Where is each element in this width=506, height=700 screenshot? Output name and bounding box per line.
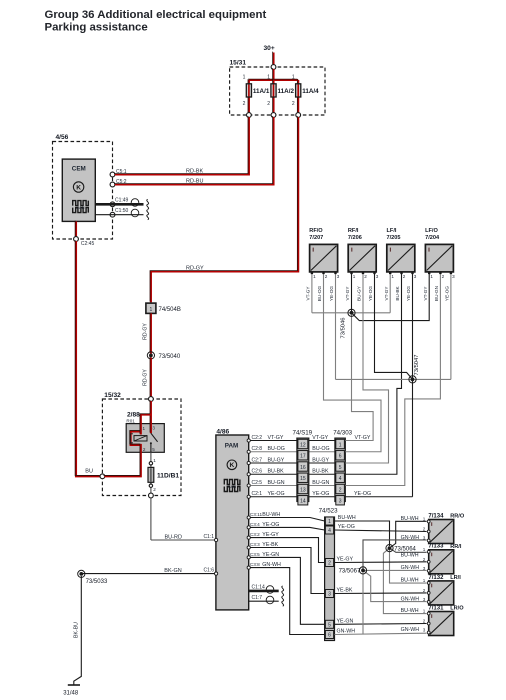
- wire VT-GY splice to RF/I pin 1: [351, 273, 353, 313]
- CEM K symbol: [73, 182, 83, 192]
- svg-text:7/132: 7/132: [428, 575, 444, 581]
- svg-text:3: 3: [452, 274, 455, 279]
- svg-text:3: 3: [423, 597, 426, 602]
- svg-text:LR/O: LR/O: [450, 606, 464, 612]
- svg-text:RF/I: RF/I: [348, 228, 359, 234]
- svg-text:Parking assistance: Parking assistance: [45, 22, 148, 34]
- svg-text:GN-WH: GN-WH: [337, 628, 356, 634]
- svg-text:1: 1: [339, 442, 342, 448]
- svg-text:Group 36 Additional electrical: Group 36 Additional electrical equipment: [45, 9, 267, 21]
- wire YE-OG splice to RF/I pin 3: [375, 273, 413, 379]
- wire through fuse 11A/2: [272, 79, 275, 113]
- svg-text:1: 1: [353, 274, 356, 279]
- wire YE-OG 74/523:4 to RR/O pin 2: [335, 530, 427, 532]
- svg-text:15: 15: [300, 476, 306, 482]
- wire 30+ feed: [272, 52, 275, 65]
- svg-text:BU: BU: [85, 468, 93, 474]
- svg-text:BU-WH: BU-WH: [401, 516, 419, 522]
- svg-text:1: 1: [423, 547, 426, 552]
- svg-text:C3:4: C3:4: [250, 522, 260, 527]
- svg-text:3: 3: [152, 425, 155, 430]
- pin C5:2: [110, 182, 115, 187]
- wire VT-GY 74/S19 to 74/303: [309, 440, 335, 442]
- wire YE-OG rail: [336, 378, 451, 380]
- wire relay pin 5 down: [150, 443, 152, 452]
- ultrasonic sensor 7/207 RF/O: [310, 244, 338, 272]
- svg-text:7/131: 7/131: [428, 605, 444, 611]
- svg-text:C3:2: C3:2: [250, 532, 260, 537]
- svg-text:CAN: CAN: [228, 484, 237, 489]
- wire BU-RD to PAM C1:1: [151, 539, 216, 541]
- svg-text:BU-BK: BU-BK: [395, 285, 400, 300]
- svg-text:1: 1: [143, 426, 146, 431]
- svg-text:BU-WH: BU-WH: [401, 608, 419, 614]
- svg-text:LF/I: LF/I: [387, 228, 397, 234]
- svg-text:16: 16: [300, 465, 306, 471]
- svg-text:LR/I: LR/I: [450, 575, 461, 581]
- 11D/B1 pin 1: [149, 462, 152, 465]
- CEM CAN symbol: [73, 201, 89, 213]
- svg-text:CAN: CAN: [76, 205, 85, 210]
- svg-text:C3:8: C3:8: [250, 562, 260, 567]
- wire YE-OG C3:4 to 74/523:4: [250, 527, 324, 530]
- ultrasonic sensor 7/205 LF/I: [387, 244, 415, 272]
- 74/S19 pin 15 box: [298, 473, 308, 482]
- 74/S19 pin 14 box: [298, 496, 308, 505]
- wire YE-GN 74/523:5 to LR/O pin 2: [335, 623, 427, 626]
- 74/S19 pin 17 box: [298, 451, 308, 460]
- relay box 15/32 outline: [102, 399, 181, 496]
- svg-text:C1:1: C1:1: [203, 534, 214, 540]
- wire break C1:50: [147, 210, 149, 220]
- wire CAN C1:7: [249, 600, 279, 602]
- wire through fuse 11A/1: [247, 79, 250, 113]
- svg-text:7/206: 7/206: [348, 235, 362, 241]
- wire YE-OG RF/O pin 3 drop: [335, 273, 337, 379]
- wire break C1:14: [282, 586, 284, 596]
- wire break C1:7: [282, 596, 284, 606]
- ultrasonic sensor 7/133 RR/I: [429, 550, 454, 574]
- wire BK-GN PAM C1:6 to 73/5033: [81, 573, 216, 575]
- wire BU-BK 74/S19 to 74/303: [309, 473, 335, 475]
- wire fuse feed rail: [248, 78, 298, 81]
- svg-text:YE-OG: YE-OG: [406, 286, 411, 301]
- 74/303 pin 5 box: [336, 462, 345, 471]
- relay switch contact: [151, 433, 158, 442]
- svg-text:73/5047: 73/5047: [414, 355, 420, 376]
- connector below fuse 11A/1: [247, 113, 252, 118]
- wire BU-GN PAM to 74/S19: [250, 485, 297, 487]
- wire BU-OG 74/S19 to 74/303: [309, 451, 335, 453]
- ultrasonic sensor 7/206 RF/I: [348, 244, 376, 272]
- svg-text:12: 12: [300, 442, 306, 448]
- svg-text:C2:45: C2:45: [81, 241, 95, 247]
- svg-text:30+: 30+: [264, 45, 275, 52]
- svg-text:2: 2: [423, 619, 426, 624]
- splice 73/5064: [386, 545, 393, 552]
- wire GN-WH 74/523:6 to LR/O pin 3: [335, 633, 427, 634]
- svg-text:11A/4: 11A/4: [302, 88, 319, 95]
- svg-text:5: 5: [339, 465, 342, 471]
- ultrasonic sensor 7/131 LR/O: [429, 612, 454, 636]
- svg-text:LF/O: LF/O: [425, 228, 438, 234]
- svg-text:RD-GY: RD-GY: [143, 369, 149, 386]
- 74/S19 pin 13 box: [298, 484, 308, 493]
- 74/523 pin 3 box: [325, 590, 333, 598]
- svg-text:74/523: 74/523: [319, 508, 338, 515]
- pin C2:45: [74, 237, 79, 242]
- pin C1:49: [110, 202, 115, 207]
- wire GN-WH C3:8 to 74/523:6: [250, 568, 324, 635]
- svg-text:7/133: 7/133: [428, 544, 444, 550]
- svg-text:3: 3: [423, 566, 426, 571]
- wire relay feed branch to pin 1: [140, 414, 151, 435]
- 74/523 pin 6 box: [325, 631, 333, 639]
- svg-text:BU-WH: BU-WH: [401, 577, 419, 583]
- wire RD-GY 74/504B to 73/5040: [149, 313, 152, 354]
- connector 15/32 bottom: [149, 493, 154, 498]
- wire YE-OG 74/S19 to 74/303: [309, 496, 335, 498]
- svg-text:14: 14: [300, 499, 306, 505]
- svg-text:YE-OG: YE-OG: [368, 286, 373, 301]
- 74/523 pin 1 box: [325, 517, 333, 525]
- CEM dashed outline 4/56: [53, 142, 113, 240]
- fuse 11A/4: [296, 84, 301, 97]
- wire VT-GY PAM to 74/S19: [250, 440, 297, 442]
- svg-text:74/S19: 74/S19: [293, 429, 313, 436]
- svg-text:BK-GN: BK-GN: [164, 568, 181, 574]
- wire GN-WH riser to splice: [362, 572, 364, 634]
- svg-text:2: 2: [364, 274, 367, 279]
- wire BK-BU to ground: [74, 576, 82, 685]
- svg-text:3: 3: [414, 274, 417, 279]
- relay coil bracket: [130, 434, 133, 443]
- svg-text:BU-WH: BU-WH: [338, 515, 356, 521]
- svg-text:7/205: 7/205: [387, 235, 401, 241]
- svg-text:1: 1: [430, 274, 433, 279]
- wire YE-GY 74/523:2 to RR/I pin 2: [335, 561, 427, 564]
- wire GN-WH splice to RR/I pin 3: [363, 569, 427, 571]
- svg-text:2: 2: [325, 274, 328, 279]
- svg-text:4: 4: [328, 528, 331, 534]
- svg-text:VT-GY: VT-GY: [345, 286, 350, 301]
- wire YE-BK 74/523:3 to LR/I pin 2: [335, 592, 427, 595]
- wire BU-WH splice to LR/I pin 1: [390, 550, 427, 583]
- wire CAN C1:14: [249, 590, 279, 593]
- wire BU-WH C3:11 to 74/523:1: [250, 518, 324, 522]
- connector 15/32 left: [100, 474, 105, 479]
- svg-text:C1:49: C1:49: [115, 198, 129, 204]
- svg-text:74/504B: 74/504B: [159, 307, 181, 313]
- wire VT-GY LF/I pin 1 drop: [389, 273, 391, 313]
- svg-text:11A/2: 11A/2: [278, 88, 295, 95]
- svg-text:R01: R01: [126, 419, 135, 424]
- svg-text:BU-GN: BU-GN: [434, 286, 439, 301]
- 74/523 pin 4 box: [325, 526, 333, 534]
- svg-text:C1:50: C1:50: [115, 208, 129, 214]
- wire BU-GY 74/S19 to 74/303: [309, 462, 335, 464]
- svg-text:YE-OG: YE-OG: [354, 491, 371, 497]
- relay 2/88 body: [126, 424, 164, 453]
- svg-text:VT-GY: VT-GY: [423, 286, 428, 301]
- svg-text:C3:11: C3:11: [250, 512, 263, 517]
- twisted pair loop C1:50: [131, 209, 139, 217]
- svg-text:2: 2: [423, 557, 426, 562]
- relay coil: [134, 436, 147, 441]
- svg-text:5: 5: [328, 622, 331, 628]
- ultrasonic sensor 7/134 RR/O: [429, 520, 454, 544]
- svg-text:YE-GY: YE-GY: [337, 557, 354, 563]
- wire VT-GY rail front sensors: [312, 312, 390, 314]
- svg-text:C3:3: C3:3: [250, 542, 260, 547]
- wire CAN-L C1:50: [95, 214, 143, 216]
- svg-text:3: 3: [328, 592, 331, 598]
- svg-text:31/48: 31/48: [63, 691, 79, 697]
- svg-text:RD-BU: RD-BU: [186, 179, 203, 185]
- svg-text:73/5033: 73/5033: [86, 579, 108, 585]
- 74/303 pin 1 box: [336, 439, 345, 448]
- svg-text:2: 2: [442, 274, 445, 279]
- splice 73/5047: [409, 376, 416, 383]
- wire YE-GN C3:5 to 74/523:5: [250, 557, 324, 624]
- svg-text:PAM: PAM: [225, 443, 239, 450]
- svg-text:74/303: 74/303: [333, 429, 352, 436]
- svg-text:GN-WH: GN-WH: [401, 596, 420, 602]
- 11D/B1 pin 2: [149, 484, 152, 487]
- fuse 11A/1: [246, 84, 251, 97]
- svg-text:BU-WH: BU-WH: [401, 552, 419, 558]
- svg-text:BU-OG: BU-OG: [317, 285, 322, 301]
- 74/S19 pin 16 box: [298, 462, 308, 471]
- svg-text:3: 3: [423, 628, 426, 633]
- wire BU from C2:45 to relay box: [75, 240, 100, 476]
- ground 31/48 symbol: [68, 684, 80, 686]
- svg-text:RD-BK: RD-BK: [186, 169, 203, 175]
- svg-text:2: 2: [292, 101, 295, 107]
- PAM module box: [216, 435, 249, 610]
- svg-text:7/207: 7/207: [309, 235, 323, 241]
- 74/303 pin 4 box: [336, 473, 345, 482]
- wire BU to relay coil pin 2: [104, 431, 141, 477]
- wire BU-WH 74/523:1 to splice: [335, 521, 390, 546]
- svg-text:3: 3: [339, 499, 342, 505]
- svg-text:GN-WH: GN-WH: [401, 565, 420, 571]
- wire YE-OG vertical through splice: [412, 273, 414, 496]
- wire RD-GY 73/5040 to 15/32: [149, 357, 152, 397]
- wire RD-BU fuse 11A/2 to CEM C5:2: [114, 116, 273, 184]
- svg-text:1: 1: [328, 519, 331, 525]
- svg-text:VT-GY: VT-GY: [384, 286, 389, 301]
- connector at fuse box top: [271, 65, 276, 70]
- svg-text:BK-BU: BK-BU: [74, 622, 80, 638]
- 74/523 pin 5 box: [325, 620, 333, 628]
- svg-text:15/31: 15/31: [230, 60, 247, 67]
- svg-text:5: 5: [152, 447, 155, 452]
- wire YE-BK C3:3 to 74/523:3: [250, 548, 324, 594]
- wire BU-WH splice to RR/O pin 1: [390, 521, 427, 548]
- connector 74/504B: [146, 303, 156, 313]
- svg-text:7/134: 7/134: [428, 513, 444, 519]
- svg-text:RF/O: RF/O: [309, 228, 323, 234]
- wire YE-OG LF/O pin 3 drop: [450, 273, 452, 379]
- connector 15/32 top: [149, 397, 154, 402]
- svg-text:C1:6: C1:6: [203, 568, 214, 574]
- wire GN-WH splice to LR/I pin 3: [363, 570, 427, 601]
- svg-text:BU-GY: BU-GY: [357, 285, 362, 301]
- svg-text:2: 2: [423, 588, 426, 593]
- PAM CAN symbol: [224, 480, 240, 492]
- svg-text:1: 1: [423, 517, 426, 522]
- svg-text:RR/O: RR/O: [450, 514, 465, 520]
- svg-text:2/88: 2/88: [127, 412, 140, 419]
- twisted pair loop C1:7: [266, 596, 274, 604]
- splice 73/5040: [147, 352, 154, 359]
- wire BU-GY 74/303:5 to RF/I pin 2: [345, 273, 388, 463]
- 74/523 pin 2 box: [325, 559, 333, 567]
- ultrasonic sensor 7/132 LR/I: [429, 581, 454, 605]
- twisted pair loop C1:14: [266, 586, 274, 594]
- wire VT-GY RF/O pin 1 drop: [311, 273, 313, 313]
- wire 30+ into box: [272, 68, 275, 80]
- svg-text:C1:7: C1:7: [252, 595, 263, 601]
- connector below fuse 11A/4: [296, 113, 301, 118]
- connector 74/303 strip: [335, 438, 345, 501]
- splice 73/5067: [359, 567, 366, 574]
- svg-text:2: 2: [153, 487, 156, 492]
- svg-text:2: 2: [339, 487, 342, 493]
- svg-text:1: 1: [292, 75, 295, 81]
- ultrasonic sensor 7/204 LF/O: [425, 244, 453, 272]
- wire BU-OG 74/303:6 to RF/O pin 2: [324, 273, 382, 451]
- svg-text:RD-GY: RD-GY: [186, 265, 204, 271]
- fuse box 15/31 outline: [230, 67, 325, 115]
- pin C1:50: [110, 212, 115, 217]
- svg-text:YE-BK: YE-BK: [337, 588, 353, 594]
- connector 74/S19 strip: [297, 438, 309, 501]
- 74/303 pin 6 box: [336, 451, 345, 460]
- wire BU-GN 74/303:2 to LF/O pin 2: [345, 273, 440, 485]
- twisted pair loop C1:49: [131, 199, 139, 207]
- svg-text:73/5046: 73/5046: [341, 318, 347, 339]
- svg-text:3: 3: [337, 274, 340, 279]
- splice 73/5033: [78, 570, 85, 577]
- svg-text:3: 3: [423, 536, 426, 541]
- wire BU-WH splice to LR/O pin 1: [383, 548, 426, 614]
- connector 74/523 strip: [325, 517, 335, 641]
- PAM K symbol: [227, 460, 237, 470]
- svg-text:6: 6: [339, 454, 342, 460]
- wire BU-BK PAM to 74/S19: [250, 473, 297, 475]
- wire BU-GY PAM to 74/S19: [250, 462, 297, 464]
- svg-text:15/32: 15/32: [104, 392, 121, 399]
- wire break C1:49: [147, 199, 149, 209]
- CEM module box: [62, 159, 95, 221]
- svg-text:4/56: 4/56: [56, 134, 69, 141]
- svg-text:4: 4: [339, 476, 342, 482]
- svg-text:2: 2: [328, 561, 331, 567]
- wire YE-OG 74/303:3 out: [345, 496, 412, 498]
- svg-text:6: 6: [328, 633, 331, 639]
- wire VT-GY splice to LF/O pin 1: [352, 273, 430, 320]
- svg-text:YE-OG: YE-OG: [329, 286, 334, 301]
- svg-text:13: 13: [300, 487, 306, 493]
- wire YE-GY C3:2 to 74/523:2: [250, 538, 324, 563]
- svg-text:YE-OG: YE-OG: [338, 524, 355, 530]
- svg-text:3: 3: [376, 274, 379, 279]
- svg-text:1: 1: [391, 274, 394, 279]
- svg-text:BU-RD: BU-RD: [165, 534, 182, 540]
- svg-text:C1:14: C1:14: [252, 584, 266, 590]
- svg-text:GN-WH: GN-WH: [401, 627, 420, 633]
- svg-text:YE-OG: YE-OG: [445, 286, 450, 301]
- connector below fuse 11A/2: [271, 113, 276, 118]
- svg-text:2: 2: [267, 101, 270, 107]
- wire relay pin5 through 11D/B1: [150, 452, 152, 495]
- svg-text:2: 2: [243, 101, 246, 107]
- svg-text:11A/1: 11A/1: [253, 88, 270, 95]
- wire BU-BK 74/303:4 to LF/I pin 2: [345, 273, 401, 474]
- svg-text:1: 1: [423, 578, 426, 583]
- svg-text:1: 1: [243, 75, 246, 81]
- wire BU-RD vertical: [150, 498, 152, 540]
- wire BU-GN 74/S19 to 74/303: [309, 485, 335, 487]
- svg-text:CEM: CEM: [72, 166, 86, 173]
- wire GN-WH splice to RR/O pin 3: [363, 540, 427, 571]
- svg-text:K: K: [230, 462, 235, 469]
- svg-text:1: 1: [150, 307, 153, 313]
- wire RD-GY fuse 11A/4 down to 74/504B: [150, 116, 298, 302]
- wire CAN-H C1:49: [95, 203, 143, 206]
- svg-text:GN-WH: GN-WH: [401, 535, 420, 541]
- 74/303 pin 3 box: [336, 496, 345, 505]
- svg-text:RD-GY: RD-GY: [143, 323, 149, 340]
- svg-text:2: 2: [423, 527, 426, 532]
- svg-text:1: 1: [153, 458, 156, 463]
- wire VT-GY 74/303:1 up to splice: [345, 315, 373, 441]
- svg-text:1: 1: [423, 609, 426, 614]
- svg-text:C3:5: C3:5: [250, 552, 260, 557]
- svg-text:YE-GN: YE-GN: [337, 619, 354, 625]
- fuse 11A/2: [271, 84, 276, 97]
- splice 73/5046: [348, 309, 355, 316]
- wire CEM to C2:45: [74, 221, 77, 237]
- wire RD-BK fuse 11A/1 to CEM C5:1: [114, 116, 249, 174]
- svg-text:1: 1: [313, 274, 316, 279]
- wire BU-OG PAM to 74/S19: [250, 451, 297, 453]
- svg-text:73/5067: 73/5067: [339, 569, 361, 575]
- svg-text:1: 1: [267, 75, 270, 81]
- 74/S19 pin 12 box: [298, 439, 308, 448]
- svg-text:73/5040: 73/5040: [159, 354, 181, 360]
- wire BU-WH splice to RR/I pin 1: [390, 548, 427, 552]
- svg-text:7/204: 7/204: [425, 235, 440, 241]
- fuse 11D/B1: [148, 467, 154, 482]
- svg-text:2: 2: [143, 447, 146, 452]
- 74/303 pin 2 box: [336, 484, 345, 493]
- svg-text:K: K: [76, 184, 81, 191]
- svg-text:2: 2: [403, 274, 406, 279]
- svg-text:VT-GY: VT-GY: [306, 286, 311, 301]
- wire YE-OG PAM to 74/S19: [250, 496, 297, 498]
- wire relay feed to pin 3: [149, 400, 152, 433]
- svg-text:11D/B1: 11D/B1: [157, 472, 179, 479]
- pin C5:1: [110, 172, 115, 177]
- wire through fuse 11A/4: [296, 79, 299, 113]
- svg-text:17: 17: [300, 454, 306, 460]
